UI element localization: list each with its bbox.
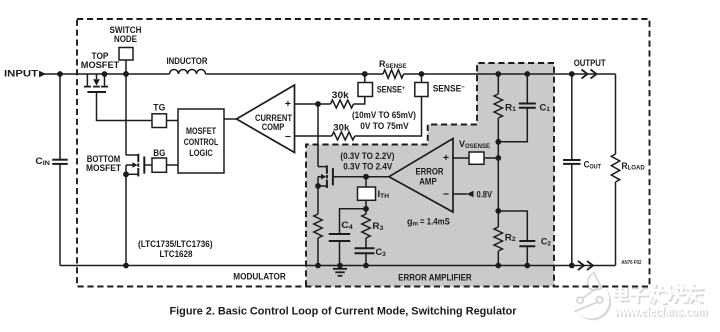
svg-text:30k: 30k	[333, 123, 350, 133]
svg-text:−: −	[285, 131, 291, 143]
svg-text:0.3V TO 2.4V: 0.3V TO 2.4V	[343, 162, 392, 172]
svg-text:NODE: NODE	[114, 34, 137, 44]
svg-text:MOSFET: MOSFET	[81, 60, 120, 70]
svg-text:= 1.4mS: = 1.4mS	[420, 217, 450, 227]
svg-text:ERROR: ERROR	[416, 167, 444, 177]
svg-text:(LTC1735/LTC1736): (LTC1735/LTC1736)	[138, 239, 213, 249]
svg-text:SENSE+: SENSE+	[377, 84, 406, 94]
svg-text:0V TO 75mV: 0V TO 75mV	[360, 121, 409, 131]
svg-text:MOSFET: MOSFET	[186, 126, 216, 136]
svg-text:OUTPUT: OUTPUT	[574, 58, 606, 68]
svg-text:0.8V: 0.8V	[477, 189, 493, 199]
svg-text:+: +	[443, 152, 449, 164]
svg-text:LOGIC: LOGIC	[189, 148, 213, 158]
svg-text:+: +	[285, 98, 291, 110]
svg-text:(0.3V TO 2.2V): (0.3V TO 2.2V)	[340, 151, 394, 161]
svg-text:INDUCTOR: INDUCTOR	[167, 56, 208, 66]
svg-text:COMP: COMP	[262, 122, 285, 132]
svg-text:www.elecfans.com: www.elecfans.com	[613, 304, 707, 319]
svg-text:TG: TG	[153, 102, 165, 112]
svg-text:BG: BG	[153, 148, 165, 158]
svg-text:LTC1628: LTC1628	[160, 249, 193, 259]
svg-text:Figure 2. Basic Control Loop o: Figure 2. Basic Control Loop of Current …	[170, 305, 518, 317]
svg-text:CONTROL: CONTROL	[184, 137, 219, 147]
svg-text:(10mV TO 65mV): (10mV TO 65mV)	[352, 110, 416, 120]
svg-text:30k: 30k	[332, 90, 350, 100]
svg-text:MODULATOR: MODULATOR	[233, 272, 286, 282]
svg-text:−: −	[443, 189, 449, 201]
svg-text:AN76 F02: AN76 F02	[621, 260, 641, 266]
svg-text:ERROR AMPLIFIER: ERROR AMPLIFIER	[398, 272, 472, 282]
svg-text:AMP: AMP	[419, 177, 437, 187]
svg-text:INPUT: INPUT	[4, 68, 39, 78]
svg-text:MOSFET: MOSFET	[86, 163, 121, 173]
svg-text:SENSE−: SENSE−	[433, 84, 465, 94]
